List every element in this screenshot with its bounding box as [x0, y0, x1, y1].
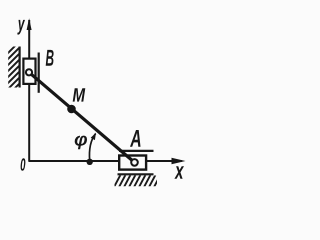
pin circle A	[131, 159, 138, 166]
x label	[174, 166, 184, 179]
pin circle B	[26, 69, 32, 75]
point M dot	[67, 105, 76, 114]
slider B guide rail	[38, 53, 40, 93]
slider A	[119, 156, 146, 170]
B label	[46, 50, 54, 66]
A label	[130, 130, 141, 147]
rod M	[29, 72, 135, 162]
ground hatching	[113, 172, 162, 189]
ground line	[118, 173, 154, 175]
M label	[73, 88, 86, 101]
axis junction dot	[87, 159, 93, 165]
slider A guide rail	[119, 150, 154, 152]
slider B	[23, 59, 35, 84]
origin label 0	[21, 158, 26, 171]
y-axis	[27, 18, 32, 162]
x-axis	[29, 158, 186, 165]
y label	[17, 20, 25, 35]
wall hatching	[4, 39, 22, 99]
angle phi arc	[89, 133, 96, 161]
wall edge	[19, 47, 21, 88]
phi label	[75, 136, 87, 150]
